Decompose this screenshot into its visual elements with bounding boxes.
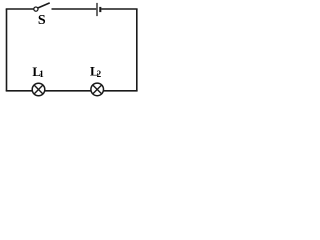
wire: top-left segment from corner to switch [6,8,34,10]
lamp L1: label [32,64,44,79]
wire: right vertical side of loop [136,9,138,91]
svg-text:S: S [38,13,46,28]
switch S: open lever arm [38,3,50,8]
wire: bottom middle segment between lamps [45,90,92,92]
svg-text:2: 2 [97,69,102,79]
wire: bottom-left segment from corner to lamp L1 [6,90,33,92]
lamp L2: label [90,64,102,80]
battery cell: short thick plate (negative) [99,7,101,12]
wire: left vertical side of loop [6,9,8,91]
switch S: pivot circle [34,7,38,11]
wire: segment from battery to top-right corner [101,8,137,10]
wire: segment from switch right contact to battery [52,8,97,10]
battery cell: long plate (positive) [96,3,98,16]
lamp L1: bulb circle with cross [32,83,45,96]
svg-text:1: 1 [39,69,44,79]
lamp L2: bulb circle with cross [91,83,104,96]
wire: bottom-right segment from lamp L2 to corner [103,90,137,92]
